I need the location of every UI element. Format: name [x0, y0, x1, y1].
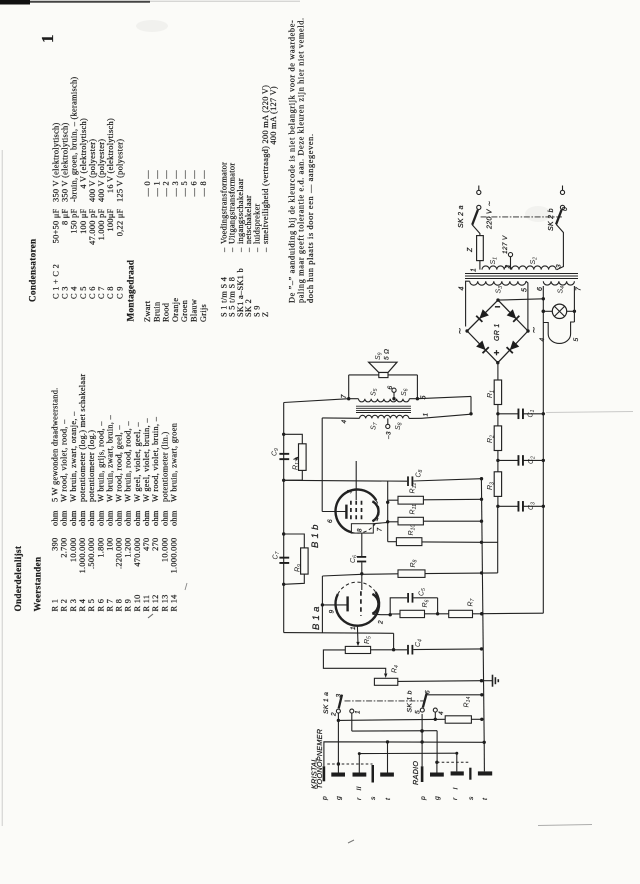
svg-text:ohm: ohm — [169, 510, 178, 526]
svg-text:W rood, violet, bruin, –: W rood, violet, bruin, – — [151, 416, 160, 502]
svg-text:47.000 pF: 47.000 pF — [88, 208, 97, 244]
svg-text:1: 1 — [423, 413, 430, 417]
svg-text:2: 2 — [331, 712, 338, 717]
svg-text:C 8: C 8 — [106, 286, 115, 299]
svg-text:7: 7 — [377, 528, 384, 532]
svg-text:W bruin, zwart, bruin, –: W bruin, zwart, bruin, – — [105, 414, 114, 502]
svg-text:B 1 b: B 1 b — [310, 524, 321, 548]
svg-text:ohm: ohm — [51, 510, 60, 526]
svg-text:3: 3 — [347, 490, 354, 494]
svg-text:6: 6 — [387, 386, 394, 390]
svg-text:R 12: R 12 — [151, 594, 160, 611]
svg-text:C 4: C 4 — [70, 286, 79, 299]
svg-text:Grijs: Grijs — [199, 304, 208, 322]
svg-text:t: t — [385, 797, 392, 800]
svg-text:6: 6 — [327, 519, 334, 523]
svg-text:B 1 a: B 1 a — [311, 606, 322, 630]
svg-text:1.000 pF: 1.000 pF — [97, 208, 106, 240]
svg-text:.500.000: .500.000 — [87, 538, 96, 569]
svg-text:R 6: R 6 — [96, 599, 105, 612]
svg-text:4: 4 — [438, 711, 445, 715]
svg-text:R 4: R 4 — [78, 598, 87, 611]
svg-text:II: II — [356, 786, 363, 790]
svg-text:150 pF: 150 pF — [70, 208, 79, 233]
svg-text:De ”–” aanduiding bij de kleur: De ”–” aanduiding bij de kleurcode is ni… — [287, 20, 296, 303]
svg-text:270: 270 — [151, 538, 160, 551]
svg-text:100: 100 — [105, 538, 114, 551]
svg-text:R7: R7 — [468, 597, 477, 606]
svg-text:7: 7 — [576, 286, 583, 291]
svg-text:S7: S7 — [371, 421, 380, 430]
svg-text:350 V (elektrolytisch): 350 V (elektrolytisch) — [51, 122, 60, 202]
svg-text:5: 5 — [415, 710, 422, 714]
svg-text:1.000.000: 1.000.000 — [78, 538, 87, 574]
svg-text:ohm: ohm — [160, 510, 169, 526]
svg-text:4 V (elektrolytisch): 4 V (elektrolytisch) — [79, 118, 88, 202]
svg-text:R 10: R 10 — [133, 594, 142, 611]
svg-text:2: 2 — [378, 620, 385, 625]
svg-text:ohm: ohm — [133, 510, 142, 526]
svg-text:W bruin, rood, rood, –: W bruin, rood, rood, – — [124, 421, 133, 502]
svg-text:ohm: ohm — [115, 510, 124, 526]
svg-text:S6: S6 — [401, 388, 410, 396]
svg-text:ohm: ohm — [60, 510, 69, 526]
svg-text:R14: R14 — [464, 697, 473, 708]
svg-text:g: g — [336, 796, 343, 800]
svg-text:0,22 μF: 0,22 μF — [115, 208, 124, 236]
svg-text:220 V ∼: 220 V ∼ — [487, 201, 494, 230]
svg-text:S2: S2 — [530, 257, 539, 265]
svg-text:R 3: R 3 — [69, 599, 78, 612]
svg-text:— 2 —: — 2 — — [162, 170, 171, 198]
svg-text:ohm: ohm — [124, 510, 133, 526]
svg-text:W rood, rood, geel, –: W rood, rood, geel, – — [115, 425, 124, 502]
svg-text:R5: R5 — [364, 636, 373, 644]
svg-text:ohm: ohm — [142, 510, 151, 526]
svg-text:g: g — [434, 796, 441, 800]
svg-text:Bruin: Bruin — [152, 301, 161, 322]
svg-text:— 1 —: — 1 — — [152, 170, 161, 198]
svg-text:Montagedraad: Montagedraad — [126, 260, 136, 322]
svg-text:1: 1 — [38, 34, 57, 43]
svg-text:Oranje: Oranje — [171, 298, 180, 322]
svg-text:r: r — [356, 797, 363, 800]
svg-text:390: 390 — [51, 538, 60, 551]
svg-text:470.000: 470.000 — [133, 538, 142, 567]
svg-text:350 V (elektrolytisch): 350 V (elektrolytisch) — [60, 122, 69, 202]
svg-text:9: 9 — [329, 610, 336, 614]
svg-text:5: 5 — [522, 288, 529, 292]
svg-text:Weerstanden: Weerstanden — [33, 557, 43, 612]
svg-text:doch hun plaats is door een —: doch hun plaats is door een — aangegeven… — [306, 133, 315, 303]
svg-text:10.000: 10.000 — [160, 538, 169, 563]
svg-text:100μF: 100μF — [106, 208, 115, 231]
svg-text:400 V (polyester): 400 V (polyester) — [88, 139, 97, 202]
svg-text:5 Ω: 5 Ω — [384, 349, 391, 360]
svg-text:SK 1 b: SK 1 b — [407, 690, 414, 712]
svg-text:R 9: R 9 — [124, 599, 133, 612]
svg-text:S8: S8 — [395, 422, 404, 430]
svg-text:Onderdelenlijst: Onderdelenlijst — [13, 545, 23, 611]
svg-text:potentiometer (log.) met schak: potentiometer (log.) met schakelaar — [78, 374, 87, 502]
svg-text:ohm: ohm — [87, 510, 96, 526]
svg-text:s: s — [370, 796, 377, 800]
svg-text:SK 1 a: SK 1 a — [323, 692, 330, 714]
svg-text:3: 3 — [556, 264, 563, 268]
svg-text:ohm: ohm — [69, 510, 78, 526]
svg-text:R 8: R 8 — [115, 599, 124, 612]
svg-text:p: p — [322, 796, 329, 801]
svg-text:W geel, violet, bruin, –: W geel, violet, bruin, – — [142, 418, 151, 502]
svg-text:RADIO: RADIO — [411, 761, 420, 785]
svg-text:R 11: R 11 — [142, 595, 151, 612]
svg-text:S4: S4 — [558, 286, 567, 294]
svg-text:1: 1 — [350, 626, 357, 630]
svg-text:C 6: C 6 — [88, 286, 97, 299]
svg-text:Groen: Groen — [180, 299, 189, 322]
svg-text:10.000: 10.000 — [69, 538, 78, 563]
svg-text:S9: S9 — [375, 352, 384, 360]
svg-text:Z: Z — [261, 312, 270, 317]
svg-text:R 14: R 14 — [169, 594, 178, 612]
svg-text:1.200: 1.200 — [124, 538, 133, 558]
svg-text:Rood: Rood — [162, 302, 171, 322]
svg-text:-bruin, groen, bruin, – (keram: -bruin, groen, bruin, – (keramisch) — [70, 77, 79, 202]
svg-text:4: 4 — [539, 338, 546, 342]
svg-text:R4: R4 — [392, 665, 401, 673]
svg-text:Zwart: Zwart — [143, 300, 152, 322]
svg-text:ohm: ohm — [96, 510, 105, 526]
svg-text:SK 2 b: SK 2 b — [548, 208, 555, 231]
svg-text:1: 1 — [355, 710, 362, 714]
svg-text:–: – — [261, 247, 270, 253]
svg-text:C5: C5 — [419, 588, 428, 596]
svg-text:R12: R12 — [410, 483, 419, 494]
svg-text:R 13: R 13 — [160, 594, 169, 611]
svg-text:paling maar geeft tolerantie e: paling maar geeft tolerantie e.d. aan. D… — [297, 17, 306, 303]
svg-text:∼: ∼ — [455, 327, 465, 334]
svg-text:R11: R11 — [410, 504, 419, 515]
svg-text:R 7: R 7 — [105, 599, 114, 612]
svg-text:W rood, violet, rood, –: W rood, violet, rood, – — [60, 419, 69, 502]
svg-text:C8: C8 — [416, 469, 425, 477]
svg-text:∼: ∼ — [529, 326, 539, 333]
svg-text:Condensatoren: Condensatoren — [28, 239, 38, 302]
svg-text:R6: R6 — [422, 599, 431, 607]
svg-text:W bruin, zwart, oranje, –: W bruin, zwart, oranje, – — [69, 411, 78, 502]
svg-text:t: t — [482, 797, 489, 800]
svg-text:7: 7 — [341, 394, 348, 399]
svg-text:4: 4 — [459, 286, 466, 290]
svg-text:— 0 —: — 0 — — [143, 170, 152, 198]
svg-text:— 3 —: — 3 — — [171, 170, 180, 198]
svg-text:16 V (elektrolytisch): 16 V (elektrolytisch) — [106, 118, 115, 202]
svg-text:127 V: 127 V — [502, 235, 509, 254]
svg-text:R 2: R 2 — [60, 599, 69, 612]
svg-text:— 5 —: — 5 — — [180, 170, 189, 198]
svg-text:4: 4 — [341, 420, 348, 424]
svg-text:1: 1 — [471, 268, 478, 272]
svg-text:400 mA (127 V): 400 mA (127 V) — [269, 86, 278, 145]
svg-text:–3: –3 — [386, 431, 393, 440]
svg-text:potentiometer (log.): potentiometer (log.) — [87, 430, 96, 502]
svg-text:ohm: ohm — [78, 510, 87, 526]
svg-text:.220.000: .220.000 — [115, 538, 124, 569]
svg-text:C 3: C 3 — [60, 286, 69, 299]
svg-text:ohm: ohm — [151, 510, 160, 526]
svg-text:5 W gewonden draadweerstand.: 5 W gewonden draadweerstand. — [51, 387, 60, 502]
svg-text:s: s — [468, 796, 475, 800]
svg-text:GR 1: GR 1 — [494, 323, 501, 341]
svg-text:R8: R8 — [410, 559, 419, 567]
svg-text:r: r — [452, 797, 459, 800]
svg-text:5: 5 — [573, 338, 580, 342]
svg-text:2.700: 2.700 — [60, 538, 69, 558]
svg-text:0: 0 — [562, 207, 569, 211]
svg-text:Z: Z — [467, 247, 474, 253]
svg-text:C 7: C 7 — [97, 286, 106, 299]
svg-text:S1: S1 — [490, 257, 499, 265]
svg-text:C 5: C 5 — [79, 286, 88, 299]
svg-text:W bruin, grijs, rood, –: W bruin, grijs, rood, – — [96, 421, 105, 502]
svg-text:p: p — [420, 796, 427, 801]
svg-text:— 8 —: — 8 — — [199, 170, 208, 198]
svg-text:S5: S5 — [371, 388, 380, 396]
svg-text:C4: C4 — [415, 639, 424, 647]
svg-text:C 1 + C 2: C 1 + C 2 — [51, 264, 60, 299]
svg-text:S3: S3 — [496, 286, 505, 294]
svg-text:potentiometer (lin.): potentiometer (lin.) — [160, 431, 169, 502]
svg-text:1.800: 1.800 — [96, 538, 105, 558]
svg-text:100 μF: 100 μF — [79, 208, 88, 233]
svg-text:1.000.000: 1.000.000 — [169, 538, 178, 574]
svg-text:8: 8 — [357, 528, 364, 532]
svg-text:TOONOPNEMER: TOONOPNEMER — [315, 729, 324, 789]
svg-text:R 1: R 1 — [51, 599, 60, 612]
svg-text:470: 470 — [142, 538, 151, 551]
svg-text:I: I — [453, 787, 460, 789]
svg-text:R 5: R 5 — [87, 599, 96, 612]
svg-text:ohm: ohm — [105, 510, 114, 526]
svg-text:C 9: C 9 — [115, 286, 124, 299]
svg-text:125 V (polyester): 125 V (polyester) — [115, 139, 124, 202]
svg-text:C9: C9 — [272, 448, 281, 456]
svg-text:— 6 —: — 6 — — [190, 170, 199, 198]
svg-text:400 V (polyester): 400 V (polyester) — [97, 139, 106, 202]
svg-text:2: 2 — [505, 265, 512, 270]
svg-text:50+50 μF: 50+50 μF — [51, 208, 60, 243]
svg-text:W geel, violet, geel, –: W geel, violet, geel, – — [133, 422, 142, 502]
svg-text:8 μF: 8 μF — [60, 208, 69, 225]
svg-text:R10: R10 — [408, 525, 417, 536]
svg-text:Blauw: Blauw — [190, 299, 199, 322]
svg-text:W bruin, zwart, groen: W bruin, zwart, groen — [169, 422, 178, 502]
svg-text:SK 2 a: SK 2 a — [458, 205, 465, 228]
